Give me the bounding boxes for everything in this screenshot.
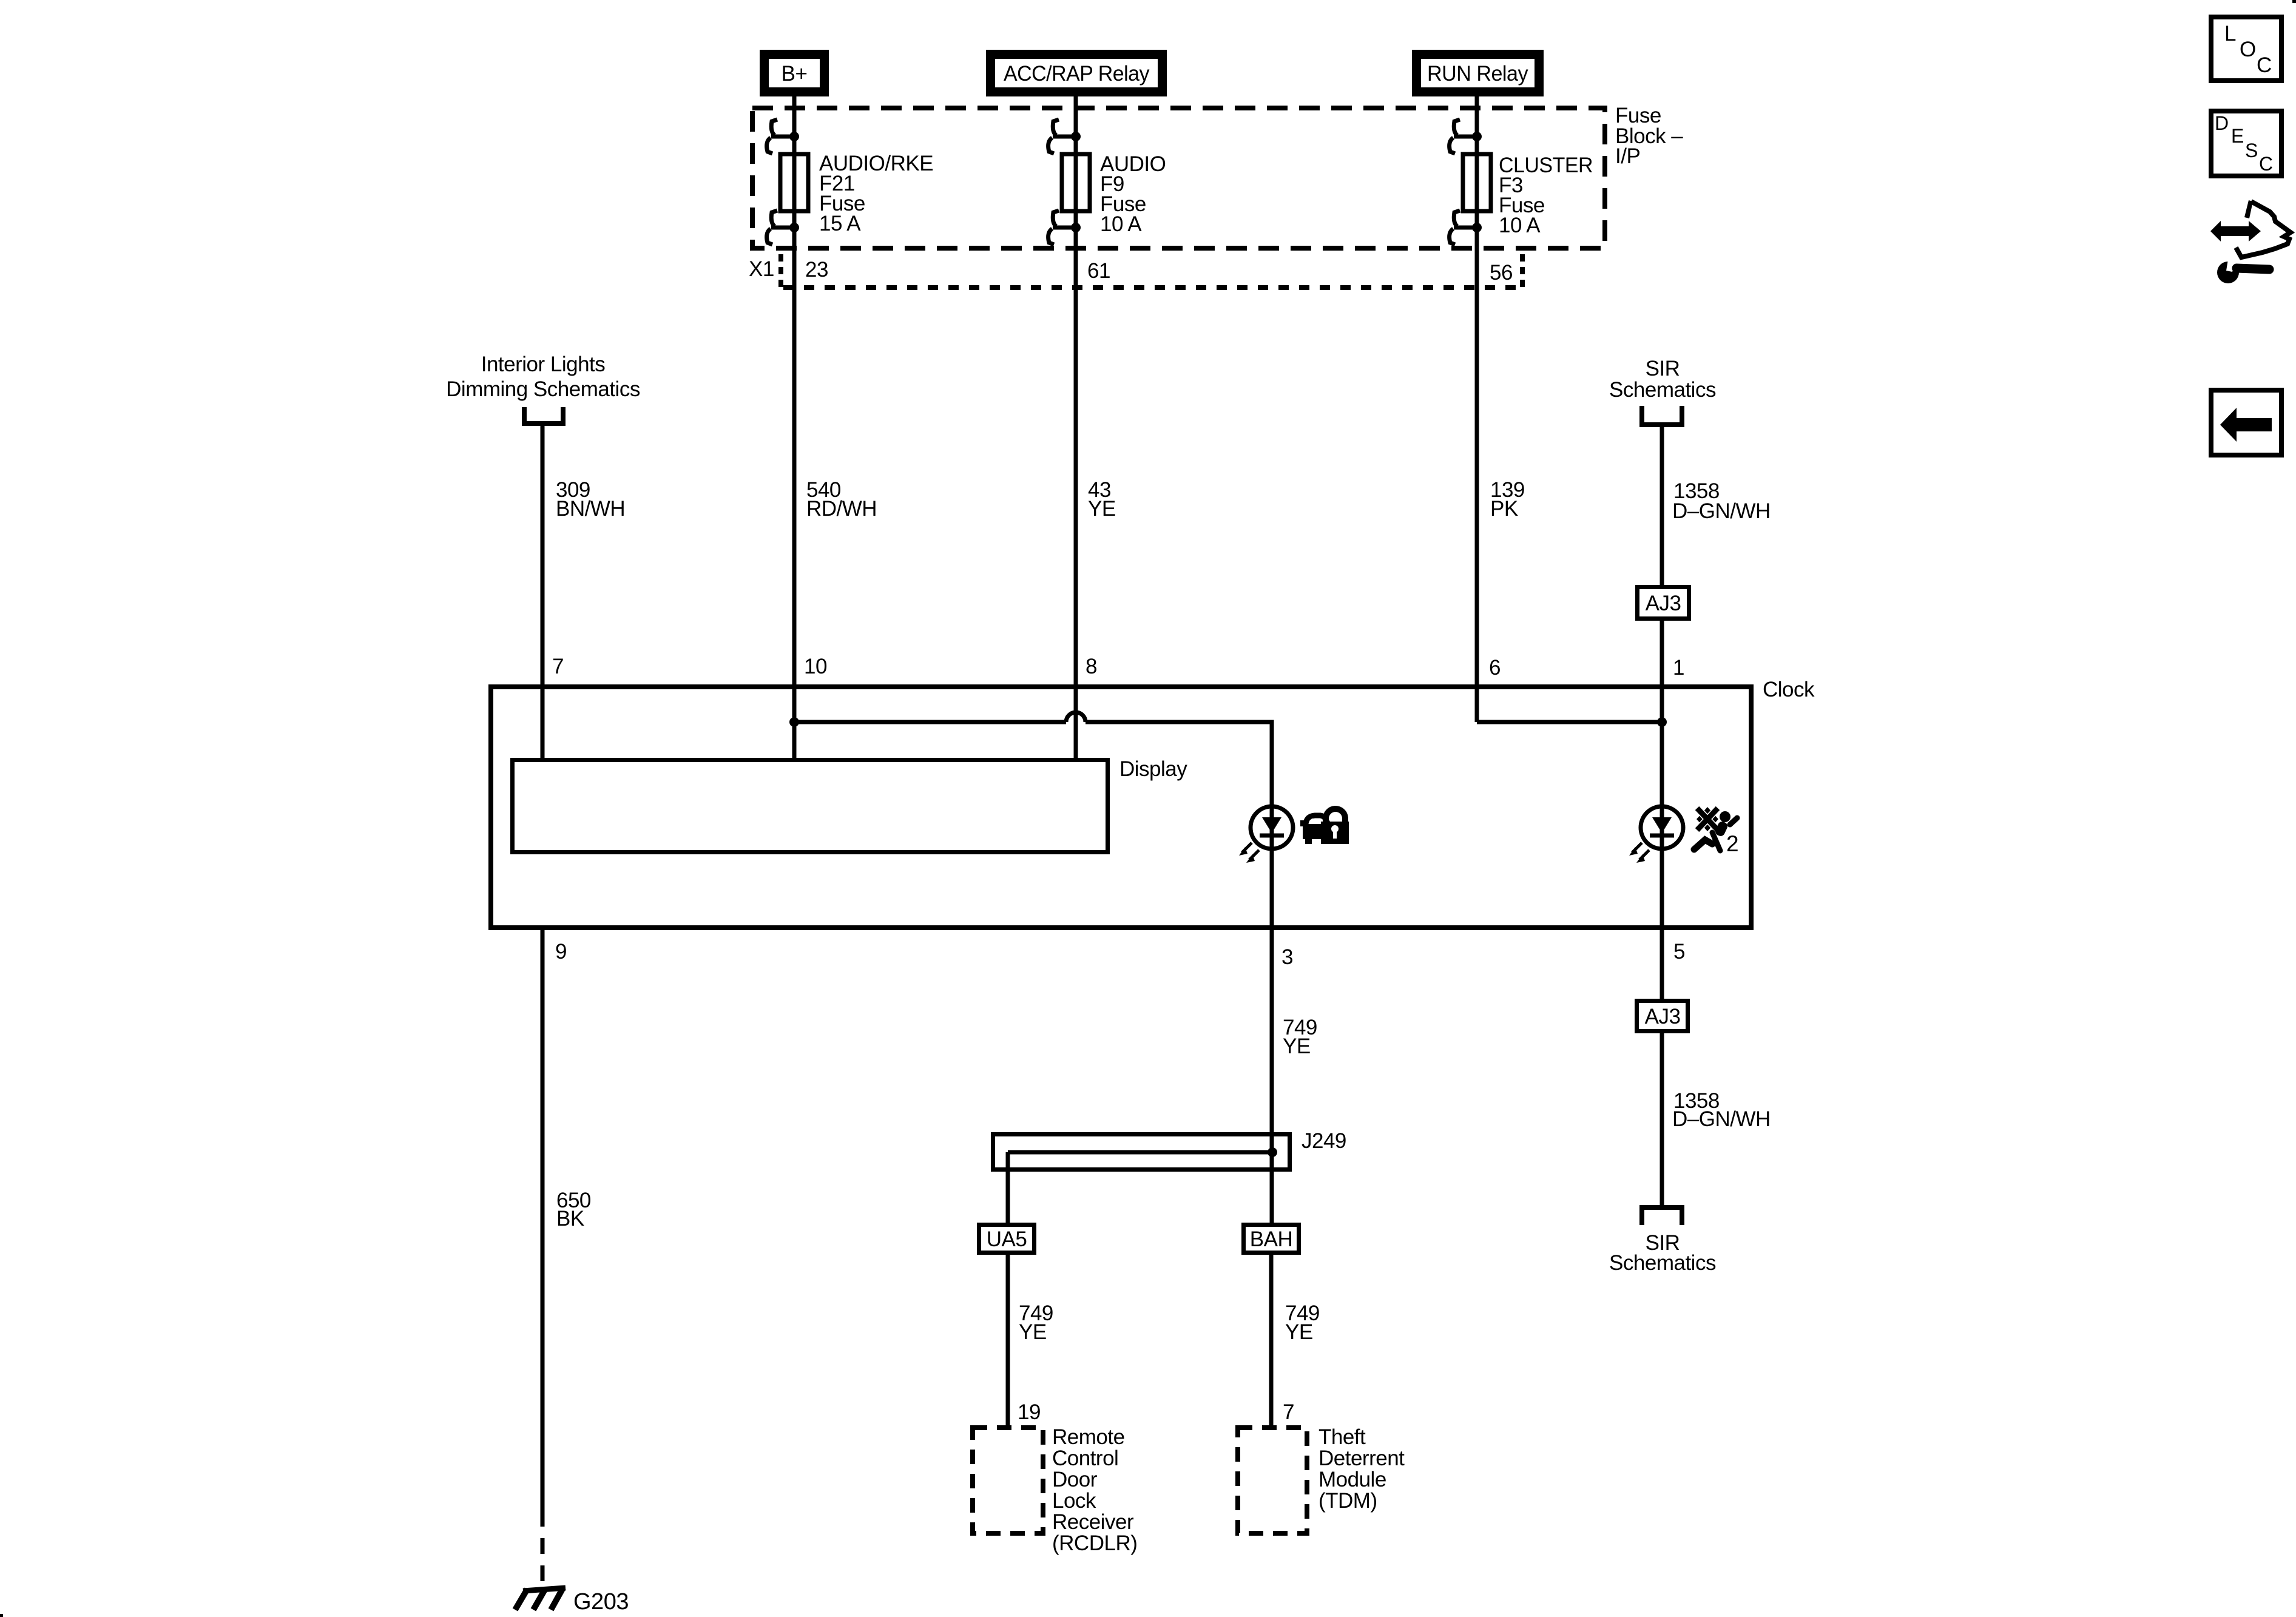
svg-text:5: 5 (1673, 940, 1685, 964)
fuse F9 AUDIO 10A (1062, 152, 1166, 236)
fuse F3 CLUSTER 10A (1463, 154, 1593, 237)
svg-text:B+: B+ (782, 62, 808, 86)
stray mark bottom left (0, 1614, 3, 1617)
wire pin 6 internal to pin 1 node (1477, 720, 1662, 724)
splice AJ3 lower (1637, 1001, 1688, 1031)
svg-text:10 A: 10 A (1100, 212, 1142, 236)
wire ACC/RAP relay to clock pin 8 (1074, 94, 1078, 758)
svg-text:10 A: 10 A (1499, 214, 1541, 237)
label 749 YE right (1285, 1301, 1320, 1344)
label 43 YE (1088, 478, 1116, 521)
car with lock icon (1300, 809, 1349, 844)
label 650 BK (556, 1189, 591, 1230)
wire RUN relay to clock pin 6 (1475, 94, 1479, 722)
svg-text:(TDM): (TDM) (1319, 1489, 1377, 1513)
svg-text:RD/WH: RD/WH (806, 497, 877, 521)
airbag deployment icon with occupant (1694, 807, 1738, 856)
splice AJ3 upper (1638, 587, 1689, 619)
svg-text:YE: YE (1285, 1320, 1313, 1344)
wire internal bus pin10 to LED1 (794, 720, 1066, 724)
svg-text:PK: PK (1490, 497, 1518, 521)
svg-text:Deterrent: Deterrent (1319, 1447, 1405, 1470)
wire hop over pin 8 (1066, 712, 1086, 722)
connector X1 right dashed edge (1520, 254, 1525, 288)
label Fuse Block - I/P (1615, 104, 1683, 168)
svg-text:2: 2 (1726, 831, 1738, 856)
connector X1 bottom dotted line (783, 285, 1522, 290)
label 309 BN/WH (556, 478, 625, 521)
svg-text:(RCDLR): (RCDLR) (1052, 1531, 1137, 1555)
label 1358 D-GN/WH lower (1672, 1089, 1771, 1131)
ground G203 (515, 1588, 629, 1615)
svg-text:G203: G203 (573, 1589, 629, 1615)
junction dot pin10 bus (789, 717, 799, 727)
terminal clip at F21 top (767, 120, 794, 154)
wire 749 YE from clock pin 3 to J249 (1270, 930, 1274, 1223)
svg-text:D: D (2215, 112, 2229, 134)
svg-text:19: 19 (1018, 1400, 1041, 1424)
svg-text:BN/WH: BN/WH (556, 497, 625, 521)
svg-text:S: S (2245, 140, 2258, 161)
svg-text:23: 23 (805, 258, 828, 282)
Remote Control Door Lock Receiver dashed box (973, 1425, 1137, 1555)
svg-text:C: C (2259, 153, 2273, 175)
connector BAH (1244, 1225, 1299, 1253)
wire pin1 node down through LED2 (1660, 722, 1664, 930)
connector end view icon (2210, 200, 2291, 283)
back arrow navigation box (2211, 390, 2281, 455)
wire bus continues to LED1 drop (1086, 722, 1272, 930)
svg-text:56: 56 (1490, 261, 1513, 285)
terminal clip at F21 bottom (767, 211, 794, 245)
svg-text:Control: Control (1052, 1447, 1118, 1470)
wire pin 7 into display (541, 684, 545, 758)
svg-text:SIR: SIR (1646, 357, 1680, 380)
svg-text:61: 61 (1087, 259, 1110, 283)
off-page reference SIR Schematics bottom (1609, 1207, 1716, 1275)
Display box (513, 757, 1188, 852)
svg-text:Door: Door (1052, 1468, 1098, 1491)
svg-text:O: O (2240, 38, 2256, 61)
svg-text:3: 3 (1281, 945, 1293, 969)
junction dot at F9 bottom (1071, 223, 1081, 232)
svg-text:Module: Module (1319, 1468, 1386, 1491)
wire UA5 to RCDLR (1006, 1255, 1010, 1428)
svg-text:YE: YE (1019, 1320, 1047, 1344)
svg-text:AJ3: AJ3 (1646, 592, 1681, 615)
junction dot pin1 node (1657, 717, 1667, 727)
label 540 RD/WH (806, 478, 877, 521)
terminal clip at F3 top (1450, 120, 1477, 154)
connector X1 left dashed edge (778, 254, 783, 288)
Fuse Block - I/P dashed boundary (752, 108, 1605, 248)
svg-text:Display: Display (1119, 757, 1187, 781)
svg-text:Theft: Theft (1319, 1425, 1366, 1449)
svg-text:7: 7 (1283, 1400, 1294, 1424)
wire 650 BK from clock pin 9 (541, 930, 545, 1511)
svg-text:Lock: Lock (1052, 1489, 1096, 1513)
LOC navigation box (2211, 17, 2281, 81)
label 749 YE upper (1283, 1016, 1317, 1058)
svg-text:X1: X1 (749, 257, 774, 281)
svg-text:15 A: 15 A (819, 212, 861, 235)
terminal clip at F3 bottom (1450, 211, 1477, 245)
wire AJ3 to clock pin 1 (1660, 621, 1664, 722)
svg-text:Dimming Schematics: Dimming Schematics (446, 377, 640, 401)
svg-text:10: 10 (804, 655, 827, 678)
off-page reference SIR Schematics top (1609, 357, 1716, 425)
connector UA5 (979, 1225, 1035, 1253)
svg-text:J249: J249 (1302, 1129, 1346, 1153)
svg-text:C: C (2257, 53, 2272, 77)
wire BAH to TDM (1269, 1255, 1274, 1428)
svg-text:6: 6 (1489, 656, 1501, 680)
label 749 YE left (1019, 1301, 1053, 1344)
svg-text:D–GN/WH: D–GN/WH (1672, 499, 1771, 523)
wire J249 to UA5 (1006, 1152, 1010, 1223)
stray mark top right (2292, 0, 2296, 3)
svg-text:D–GN/WH: D–GN/WH (1672, 1107, 1771, 1131)
wire AJ3 lower to SIR schematics (1660, 1033, 1664, 1207)
svg-text:Receiver: Receiver (1052, 1510, 1134, 1534)
svg-text:I/P: I/P (1615, 144, 1640, 168)
junction dot at F21 bottom (789, 223, 799, 232)
LED2 airbag indicator (1629, 806, 1683, 863)
svg-text:YE: YE (1283, 1035, 1311, 1058)
svg-text:BAH: BAH (1250, 1227, 1292, 1251)
svg-text:YE: YE (1088, 497, 1116, 521)
svg-text:Schematics: Schematics (1609, 378, 1716, 402)
svg-text:BK: BK (556, 1207, 584, 1230)
LED1 lock indicator (1239, 806, 1293, 863)
junction dot at F9 top (1071, 132, 1081, 141)
svg-text:8: 8 (1086, 655, 1097, 678)
wire 1358 D-GN/WH to AJ3 (1660, 425, 1664, 585)
RUN Relay feed box (1417, 55, 1539, 92)
svg-text:Schematics: Schematics (1609, 1251, 1716, 1275)
DESC navigation box (2211, 111, 2281, 176)
splice pack J249 (993, 1129, 1346, 1170)
svg-text:1: 1 (1673, 656, 1684, 680)
svg-text:UA5: UA5 (987, 1227, 1027, 1251)
junction dot at F3 bottom (1472, 223, 1482, 232)
svg-text:Clock: Clock (1763, 678, 1815, 701)
svg-text:7: 7 (552, 655, 564, 678)
off-page reference Interior Lights Dimming Schematics (446, 353, 640, 424)
svg-text:9: 9 (555, 940, 567, 964)
terminal clip at F9 top (1048, 120, 1076, 154)
terminal clip at F9 bottom (1048, 211, 1076, 245)
svg-text:Remote: Remote (1052, 1425, 1125, 1449)
svg-text:L: L (2224, 22, 2236, 46)
ACC/RAP Relay feed box (991, 55, 1163, 92)
wire B+ to clock pin 10 (792, 94, 797, 758)
wire 650 BK dashed section (541, 1511, 545, 1587)
Clock module box (491, 687, 1751, 928)
svg-text:RUN Relay: RUN Relay (1427, 62, 1528, 86)
label 1358 D-GN/WH (1672, 479, 1771, 523)
svg-text:ACC/RAP Relay: ACC/RAP Relay (1004, 62, 1150, 86)
label 139 PK (1490, 478, 1525, 521)
wire clock pin 5 to AJ3 lower (1660, 930, 1664, 999)
fuse F21 AUDIO/RKE 15A (780, 152, 933, 235)
Theft Deterrent Module dashed box (1238, 1425, 1405, 1533)
svg-text:AJ3: AJ3 (1645, 1005, 1681, 1028)
svg-text:E: E (2231, 125, 2244, 147)
junction dot at F3 top (1472, 132, 1482, 141)
svg-text:Interior Lights: Interior Lights (481, 353, 606, 376)
power feed B+ box (765, 55, 825, 92)
wire 309 BN/WH to clock pin 7 (541, 424, 545, 684)
junction dot at F21 top (789, 132, 799, 141)
